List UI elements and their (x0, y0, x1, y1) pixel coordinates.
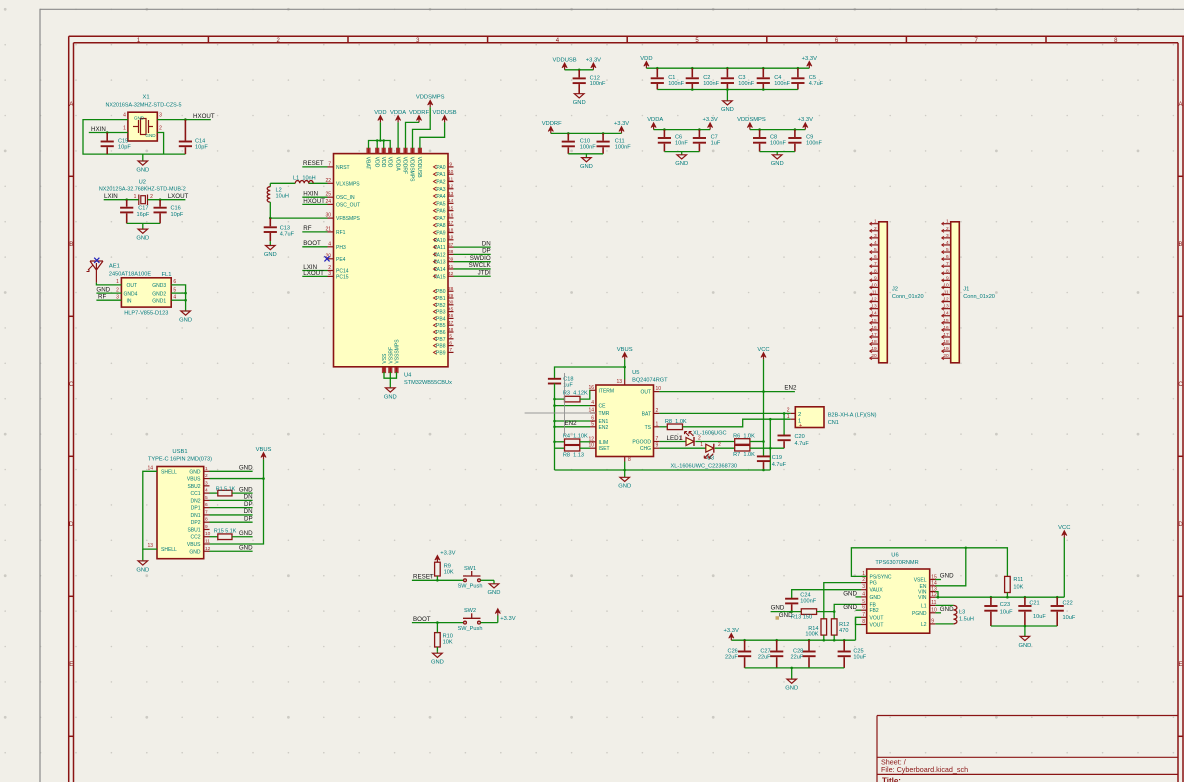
svg-text:GND: GND (771, 161, 784, 167)
wire USB VBUS pin2 (210, 459, 264, 478)
U6 pin 1 PS/SYNC (861, 575, 867, 577)
wire VDD rail top (646, 67, 809, 69)
svg-text:GND: GND (675, 161, 688, 167)
U6 pin 2 PG (861, 582, 867, 584)
svg-text:PGOOD: PGOOD (632, 440, 651, 446)
svg-text:CC2: CC2 (190, 535, 200, 541)
svg-text:12: 12 (448, 184, 454, 190)
ground below U4 (384, 387, 397, 400)
U4 top pin VDDSMPS (412, 148, 414, 153)
antenna AE1 (87, 261, 104, 283)
svg-text:+3.3V: +3.3V (724, 628, 739, 634)
svg-text:GND: GND (843, 604, 857, 611)
svg-text:2: 2 (656, 408, 659, 414)
connector CN1 (795, 407, 824, 428)
svg-text:PA5: PA5 (436, 201, 445, 207)
capacitor C17 (125, 198, 128, 201)
wire U2 to LXOUT (148, 199, 186, 201)
svg-text:R8 1.13: R8 1.13 (563, 453, 584, 459)
U4 pin PA15 (448, 275, 454, 277)
U4 pin 2 PC14 (328, 270, 334, 272)
resistor R6 (735, 439, 750, 445)
svg-text:VOUT: VOUT (870, 615, 884, 621)
U6 pin 9 L2 (930, 623, 936, 625)
svg-text:U6: U6 (891, 552, 898, 558)
ground FL1 (179, 307, 192, 323)
svg-text:VFBSMPS: VFBSMPS (336, 216, 361, 222)
svg-text:TS: TS (645, 425, 652, 431)
wire VIN pin13 to rail (935, 592, 938, 598)
svg-text:2: 2 (698, 436, 701, 442)
svg-text:7: 7 (205, 509, 208, 515)
svg-text:SWCLK: SWCLK (469, 262, 492, 269)
capacitor C6 (663, 128, 666, 131)
svg-text:VBUS: VBUS (187, 477, 201, 483)
ground below X1 (136, 154, 149, 173)
resistor R8B (555, 447, 565, 449)
USB1 pin 12 GND (204, 550, 210, 552)
svg-text:2450AT18A100E: 2450AT18A100E (109, 271, 151, 277)
svg-text:VBAT: VBAT (365, 157, 371, 170)
svg-text:10uF: 10uF (853, 654, 866, 660)
USB1 pin 9 SBU1 (204, 528, 210, 530)
svg-text:RF: RF (303, 225, 311, 232)
U4 top pin VDDUSB (419, 148, 421, 153)
wire SW1 to ground (481, 579, 495, 581)
U5 top pin VBUS (624, 380, 626, 386)
svg-text:+3.3V: +3.3V (798, 117, 813, 123)
U4 pin 21 RF1 (328, 231, 334, 233)
U4 pin PA0 (448, 166, 454, 168)
J1 pin 5 (942, 251, 951, 253)
resistor R13 (801, 609, 816, 615)
wire USB GND pin1 (210, 470, 253, 472)
svg-text:45: 45 (448, 306, 454, 312)
svg-text:470: 470 (839, 628, 848, 634)
J2 pin 2 (870, 230, 879, 232)
svg-text:GND: GND (179, 317, 192, 323)
J1 pin 18 (942, 343, 951, 345)
U4 pin PA1 (448, 173, 454, 175)
U4 pin PB8 (448, 345, 454, 347)
svg-text:TMR: TMR (599, 411, 610, 417)
U4 pin 25 OSC_IN (328, 196, 334, 198)
svg-text:6: 6 (862, 605, 865, 611)
svg-text:5: 5 (946, 247, 949, 253)
ground below C21 (1018, 626, 1031, 649)
svg-text:100K: 100K (805, 631, 818, 637)
U4 top pin VDD (376, 148, 378, 153)
svg-text:HXOUT: HXOUT (303, 198, 325, 205)
J2 pin 18 (870, 343, 879, 345)
svg-text:8: 8 (874, 268, 877, 274)
svg-text:PA2: PA2 (436, 179, 445, 185)
svg-text:GND: GND (239, 544, 253, 551)
J2 pin 11 (870, 294, 879, 296)
svg-text:PB3: PB3 (436, 310, 446, 316)
resistor R9 (435, 562, 441, 576)
wire USB DP2 (210, 521, 253, 523)
svg-text:2: 2 (718, 442, 721, 448)
J1 pin 17 (942, 336, 951, 338)
svg-text:R15 5.1K: R15 5.1K (214, 528, 237, 534)
svg-text:C23: C23 (1000, 602, 1010, 608)
capacitor C22 (1056, 596, 1059, 599)
LED U3 (659, 447, 705, 449)
svg-text:VBUS: VBUS (256, 447, 272, 453)
svg-text:SW_Push: SW_Push (458, 584, 483, 590)
svg-text:GND4: GND4 (124, 291, 138, 297)
filter FL1 (121, 278, 171, 307)
IC U6 TPS63070 (867, 569, 930, 633)
svg-text:LXOUT: LXOUT (303, 270, 324, 277)
svg-text:VDDA: VDDA (390, 110, 406, 116)
svg-text:PG: PG (870, 581, 877, 587)
J2 pin 12 (870, 301, 879, 303)
capacitor C7 (698, 128, 701, 131)
U4 pin 7 NRST (328, 166, 334, 168)
J1 pin 12 (942, 301, 951, 303)
U4 pin PB5 (448, 324, 454, 326)
U4 pin PB3 (448, 311, 454, 313)
capacitor C15 (106, 131, 109, 134)
svg-text:5: 5 (449, 334, 452, 340)
crosshair cursor (525, 373, 596, 435)
ground below R10 (431, 652, 444, 666)
resistor R11 (1005, 576, 1011, 592)
svg-text:DP1: DP1 (191, 506, 201, 512)
U4 pin 30 VFBSMPS (328, 217, 334, 219)
wire USB VBUS pin11 (210, 479, 264, 544)
J1 pin 9 (942, 279, 951, 281)
svg-text:ISET: ISET (599, 446, 610, 452)
svg-text:C11: C11 (615, 139, 625, 145)
svg-text:19: 19 (943, 346, 949, 352)
svg-text:1uF: 1uF (711, 141, 721, 147)
wire CE to bus (555, 405, 591, 407)
svg-text:+3.3V: +3.3V (440, 551, 455, 557)
svg-text:JTDI: JTDI (478, 269, 491, 276)
svg-text:J1: J1 (963, 286, 969, 292)
svg-text:1: 1 (874, 219, 877, 225)
svg-text:OSC_OUT: OSC_OUT (336, 202, 360, 208)
wire U6 GND pin4 label (856, 596, 862, 598)
svg-text:VDDA: VDDA (647, 117, 663, 123)
svg-text:AE1: AE1 (109, 264, 120, 270)
capacitor C5 (797, 67, 800, 70)
svg-text:SBU1: SBU1 (187, 527, 200, 533)
svg-text:CC1: CC1 (190, 491, 200, 497)
ground below C12 (573, 94, 586, 106)
svg-text:NX2012SA-32.768KHZ-STD-MUB-2: NX2012SA-32.768KHZ-STD-MUB-2 (99, 187, 186, 193)
wire EN1 to bus (555, 420, 591, 422)
U4 pin PB0 (448, 290, 454, 292)
wires USB1 shell to ground (143, 471, 157, 549)
wire C23-C22 bottom rail (991, 625, 1057, 627)
svg-text:E: E (1178, 662, 1182, 668)
power VDDRF above U4 (409, 110, 429, 122)
wire VDDSMPS bottom rail (760, 151, 795, 153)
no-connect PE4 (324, 256, 329, 261)
svg-text:16: 16 (448, 213, 454, 219)
capacitor C23 (990, 596, 993, 599)
svg-text:22uF: 22uF (758, 654, 771, 660)
wire SW2 to +3.3V (481, 622, 498, 624)
capacitor C24 (785, 599, 798, 612)
svg-text:L1 10nH: L1 10nH (293, 176, 316, 182)
svg-text:GND: GND (189, 549, 201, 555)
svg-text:VSSSMPS: VSSSMPS (395, 339, 401, 364)
svg-text:5: 5 (205, 495, 208, 501)
USB1 pin 4 CC1 (204, 492, 210, 494)
svg-text:GND: GND (870, 595, 882, 601)
J1 pin 13 (942, 308, 951, 310)
svg-text:10K: 10K (443, 640, 453, 646)
ground below VDDSMPS caps (771, 152, 784, 168)
wire LXIN to U2 (104, 199, 139, 201)
svg-text:10: 10 (871, 282, 877, 288)
svg-text:VDD: VDD (386, 157, 392, 168)
wire VDD rail bottom (657, 89, 798, 91)
wire BAT to CN1 (659, 412, 790, 414)
svg-text:SHELL: SHELL (161, 547, 177, 553)
USB1 pin 3 SBU2 (204, 485, 210, 487)
svg-text:+3.3V: +3.3V (500, 616, 515, 622)
svg-text:7: 7 (862, 612, 865, 618)
svg-text:14: 14 (448, 198, 454, 204)
svg-text:10pF: 10pF (118, 145, 131, 151)
svg-text:13: 13 (448, 191, 454, 197)
svg-text:E: E (69, 662, 73, 668)
svg-text:1: 1 (700, 442, 703, 448)
svg-text:GND: GND (239, 486, 253, 493)
J1 pin 6 (942, 258, 951, 260)
svg-text:HLP7-V855-D123: HLP7-V855-D123 (124, 311, 168, 317)
svg-text:PA8: PA8 (436, 223, 445, 229)
U4 pin PA10 (448, 239, 454, 241)
J2 pin 17 (870, 336, 879, 338)
J2 pin 1 (870, 223, 879, 225)
USB1 pin 8 DP2 (204, 521, 210, 523)
U4 pin PB1 (448, 297, 454, 299)
J1 pin 20 (942, 357, 951, 359)
capacitor C8 (758, 128, 761, 131)
svg-text:PB1: PB1 (436, 296, 446, 302)
svg-text:10uF: 10uF (1063, 615, 1076, 621)
U6 pin 8 VOUT (861, 624, 867, 626)
U5 pin 6 EN1 (590, 420, 596, 422)
svg-text:SW1: SW1 (464, 566, 476, 572)
svg-text:17: 17 (943, 332, 949, 338)
svg-text:9: 9 (449, 162, 452, 168)
wires FL1 right side grounds (171, 285, 185, 307)
svg-text:GND: GND (239, 530, 253, 537)
svg-text:PA4: PA4 (436, 194, 445, 200)
svg-text:20: 20 (943, 353, 949, 359)
U4 pin PB6 (448, 331, 454, 333)
wire USB DP1 (210, 507, 253, 509)
resistor R3 (555, 398, 565, 400)
svg-text:+3.3V: +3.3V (802, 56, 817, 62)
svg-text:2: 2 (946, 226, 949, 232)
wire U5 bottom gnd rail (555, 469, 771, 471)
svg-text:7: 7 (874, 261, 877, 267)
svg-text:4: 4 (591, 400, 594, 406)
svg-text:C16: C16 (171, 206, 181, 212)
wire X1 pin2 down (157, 133, 163, 155)
svg-text:41: 41 (448, 264, 454, 270)
svg-text:100nF: 100nF (774, 81, 790, 87)
svg-text:EN2: EN2 (784, 385, 797, 392)
inductor L1 (295, 181, 313, 184)
svg-text:PC15: PC15 (336, 274, 349, 280)
svg-text:GND: GND (573, 100, 586, 106)
inductor L3 (935, 604, 953, 606)
wire VFBSMPS (270, 217, 327, 219)
capacitor C1 (656, 67, 659, 70)
svg-text:1: 1 (680, 436, 683, 442)
ground below VDDRF caps (580, 154, 593, 170)
wire VBUS top rail to C18 bus (555, 367, 625, 379)
svg-text:C17: C17 (138, 206, 148, 212)
svg-text:10K: 10K (1013, 584, 1023, 590)
svg-text:13: 13 (616, 379, 622, 385)
wire left GND bus of U5 (554, 383, 556, 470)
svg-text:VDDSMPS: VDDSMPS (409, 157, 415, 182)
wire +3.3V rail U6 (731, 639, 855, 641)
J1 pin 19 (942, 350, 951, 352)
U6 pin 7 VOUT (861, 616, 867, 618)
svg-text:C15: C15 (118, 139, 128, 145)
power VDDUSB above U4 (433, 110, 457, 122)
svg-text:15: 15 (448, 205, 454, 211)
svg-text:R9: R9 (444, 564, 451, 570)
svg-text:4: 4 (874, 240, 877, 246)
wire VDD rail above U4 (369, 141, 391, 149)
svg-text:GND3: GND3 (152, 283, 166, 289)
svg-text:GND: GND (145, 133, 156, 138)
U5 pin 9 CHG (654, 447, 660, 449)
svg-text:VCC: VCC (1058, 525, 1070, 531)
svg-text:17: 17 (871, 332, 877, 338)
svg-text:C20: C20 (795, 434, 805, 440)
wire LXOUT to U4 (302, 275, 327, 277)
J1 pin 1 (942, 223, 951, 225)
svg-text:DN: DN (244, 494, 253, 501)
svg-text:22uF: 22uF (725, 654, 738, 660)
svg-text:RESET: RESET (413, 573, 434, 580)
capacitor C3 (726, 67, 729, 70)
svg-text:3: 3 (946, 233, 949, 239)
svg-text:VDDRF: VDDRF (409, 110, 429, 116)
wire PGND GND label (935, 612, 941, 614)
svg-text:PA7: PA7 (436, 216, 445, 222)
J2 pin 7 (870, 265, 879, 267)
svg-text:VSEL: VSEL (914, 578, 927, 584)
wire VAUX to C24 (792, 590, 861, 599)
svg-text:100nF: 100nF (615, 145, 631, 151)
svg-text:TPS63070RNMR: TPS63070RNMR (875, 560, 918, 566)
svg-text:28: 28 (448, 286, 454, 292)
svg-text:L2: L2 (921, 622, 927, 628)
wire L2 to VFBSMPS (269, 202, 271, 218)
svg-text:VDD: VDD (380, 157, 386, 168)
svg-text:VSS: VSS (382, 353, 388, 364)
switch SW2 (463, 613, 481, 624)
wire BOOT to U4 (302, 246, 327, 248)
U4 pin PA9 (448, 232, 454, 234)
svg-text:16pF: 16pF (137, 212, 150, 218)
svg-text:14: 14 (943, 311, 949, 317)
U6 pin 12 VIN (930, 596, 936, 598)
svg-text:1.5uH: 1.5uH (959, 617, 974, 623)
U4 pin PA4 (448, 195, 454, 197)
svg-text:SBU2: SBU2 (187, 484, 200, 490)
capacitor C25 (843, 639, 846, 642)
svg-text:RESET: RESET (303, 160, 324, 167)
svg-text:HXIN: HXIN (303, 191, 318, 198)
J2 pin 4 (870, 244, 879, 246)
wire PA14 SWCLK (454, 268, 491, 270)
U5 pin 1 TS (654, 426, 660, 428)
U4 pin PA14 (448, 268, 454, 270)
power VBUS above U5 (617, 347, 633, 359)
ground below USB1 (136, 560, 149, 573)
svg-text:9: 9 (931, 619, 934, 625)
wire U5 VSS to rail (624, 462, 626, 471)
svg-text:14: 14 (147, 465, 153, 471)
wire VDDUSB rail (565, 69, 594, 71)
U6 pin 3 VAUX (861, 589, 867, 591)
svg-text:3: 3 (159, 113, 162, 119)
svg-text:VBUS: VBUS (187, 542, 201, 548)
svg-text:SW_Push: SW_Push (458, 626, 483, 632)
svg-text:3: 3 (874, 233, 877, 239)
svg-text:100nF: 100nF (806, 141, 822, 147)
ground below U2 (136, 223, 149, 241)
svg-text:4: 4 (946, 240, 949, 246)
U5 pin 14 TMR (590, 412, 596, 414)
svg-text:10: 10 (943, 282, 949, 288)
inductor L2 (269, 183, 271, 186)
resistor R10 (435, 633, 441, 647)
power VDD C1-C5 group (640, 56, 652, 68)
capacitor C2 (691, 67, 694, 70)
svg-text:OUT: OUT (640, 390, 651, 396)
J1 pin 8 (942, 272, 951, 274)
svg-text:Title:: Title: (882, 777, 901, 782)
U6 pin 14 EN (930, 585, 936, 587)
wire RESET to U4 (302, 166, 327, 168)
capacitor C12 (578, 69, 581, 72)
wire U6 top rail PS/SYNC EN R11 (851, 548, 1007, 577)
svg-text:7: 7 (328, 161, 331, 167)
svg-text:4.7uF: 4.7uF (795, 441, 810, 447)
ground below VDD caps (721, 90, 734, 114)
J2 pin 13 (870, 308, 879, 310)
wire VOUT pins to 3.3V rail (856, 617, 862, 624)
svg-text:GND: GND (189, 469, 201, 475)
svg-text:15: 15 (871, 318, 877, 324)
svg-text:BQ24074RGT: BQ24074RGT (632, 377, 668, 383)
svg-text:ITERM: ITERM (599, 388, 615, 394)
svg-text:File: Cyberboard.kicad_sch: File: Cyberboard.kicad_sch (881, 765, 968, 774)
svg-text:3: 3 (205, 480, 208, 486)
svg-text:1: 1 (205, 466, 208, 472)
U4 top pin VDD (383, 148, 385, 153)
wire FB to R12 (834, 604, 861, 618)
power +3.3V at U6 (724, 628, 739, 640)
